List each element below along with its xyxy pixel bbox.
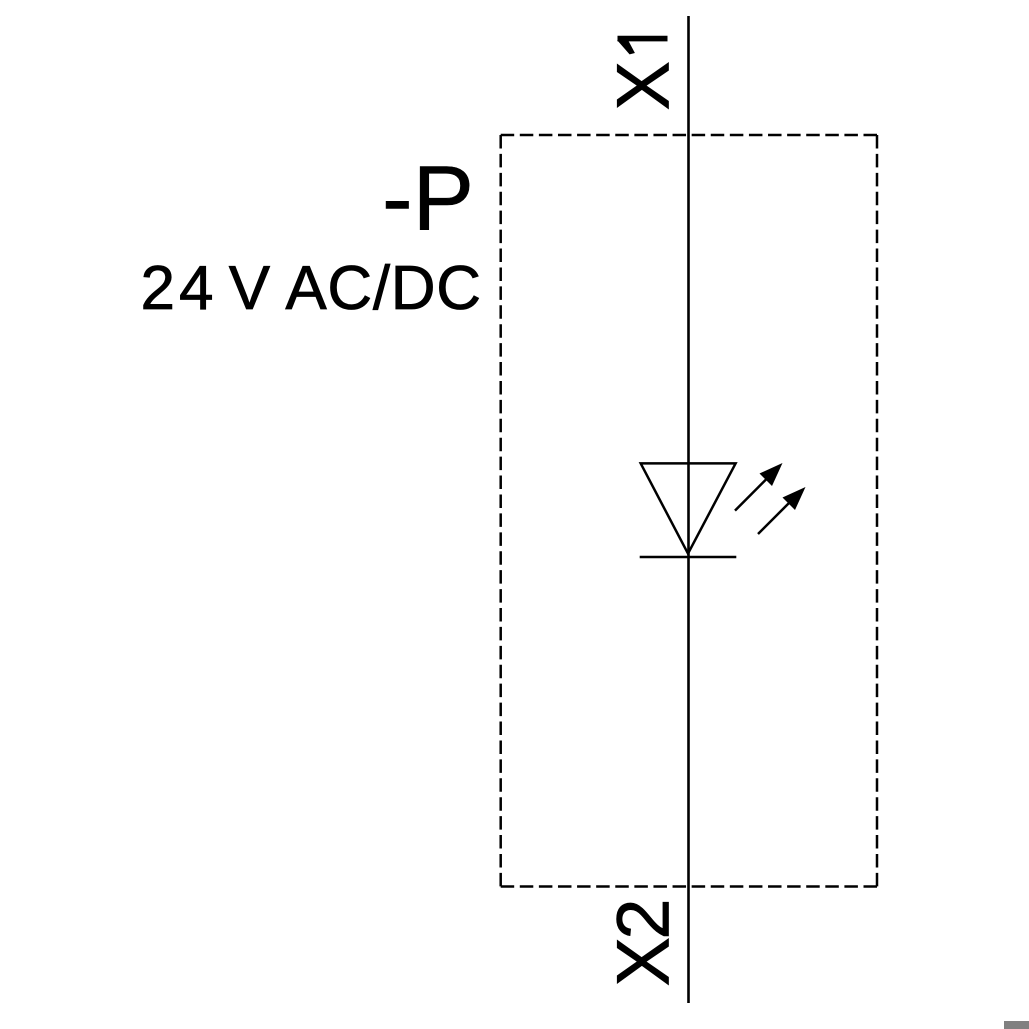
svg-text:X: X [602,61,685,110]
svg-text:-P: -P [382,148,474,250]
gray corner block [1004,1021,1029,1029]
LED cathode bar [640,556,737,559]
svg-text:V AC/DC: V AC/DC [229,254,482,323]
enclosure: dashed boundary of lamp module -P [501,135,877,887]
LED anode triangle [641,463,736,553]
light emission arrow 2 [758,487,806,534]
light emission arrow 1 [735,463,783,511]
wire: vertical conductor from terminal X1 to terminal X2 [687,16,690,1003]
terminal pin label X1 [602,36,685,111]
svg-text:24: 24 [141,254,218,323]
svg-text:X2: X2 [602,901,685,987]
